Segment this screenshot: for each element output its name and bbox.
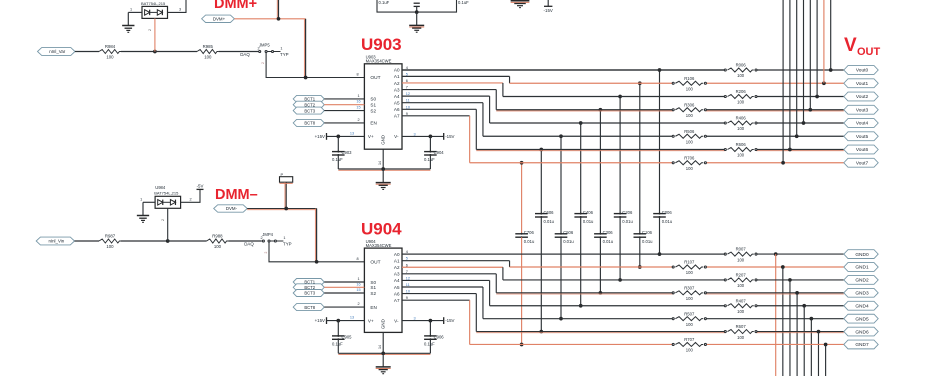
svg-text:100: 100: [737, 73, 745, 78]
wire A7 staircase (U904): [402, 300, 470, 344]
wire channel 7 vertical (GND side): [520, 237, 524, 346]
svg-text:5: 5: [406, 72, 408, 76]
net label DVM+: [202, 15, 235, 22]
wire A6 staircase (U903): [402, 109, 476, 149]
svg-text:OUT: OUT: [370, 259, 380, 265]
svg-text:100: 100: [204, 55, 212, 60]
mux U904: [364, 239, 402, 333]
resistor R607: [724, 324, 757, 340]
wire GND4 row: [490, 304, 844, 308]
svg-text:14: 14: [378, 161, 382, 165]
svg-text:C006: C006: [662, 210, 673, 215]
wire A1 staircase (U904): [402, 261, 510, 267]
svg-text:R107: R107: [684, 260, 695, 265]
svg-text:12: 12: [406, 92, 410, 96]
svg-text:S1: S1: [370, 285, 376, 290]
svg-text:100: 100: [737, 257, 745, 262]
wire: [155, 51, 197, 53]
svg-text:R507: R507: [684, 311, 695, 316]
wire channel 5 vertical (GND side): [559, 237, 563, 320]
resistor R606: [724, 142, 757, 158]
capacitor remnant label right: [458, 0, 469, 5]
svg-text:0.01u: 0.01u: [603, 239, 614, 244]
svg-text:10: 10: [406, 105, 410, 109]
wire V-: [402, 132, 444, 136]
wire GND0 row: [402, 252, 844, 256]
svg-text:2: 2: [357, 302, 359, 306]
svg-text:0.1uF: 0.1uF: [332, 157, 343, 162]
jumper JMP5: [259, 42, 289, 64]
svg-text:U904: U904: [361, 220, 402, 239]
svg-text:100: 100: [106, 55, 114, 60]
capacitor remnant label left: [379, 0, 390, 5]
svg-text:100: 100: [737, 153, 745, 158]
svg-text:Vout7: Vout7: [856, 160, 869, 166]
wire to gnd (U904): [382, 353, 384, 366]
resistor R306: [672, 102, 706, 118]
wire A2 staircase (U903): [402, 83, 503, 97]
svg-text:V-: V-: [394, 318, 399, 323]
junction top rail: [415, 10, 419, 14]
svg-text:A1: A1: [394, 74, 400, 79]
svg-text:BCT3: BCT3: [304, 108, 315, 113]
resistor R406: [724, 116, 757, 132]
net label GND2: [844, 276, 878, 285]
svg-text:R706: R706: [684, 155, 695, 160]
wire BCT3 to pin: [324, 106, 364, 111]
power +15V (U903 V+): [315, 133, 327, 140]
resistor R007: [724, 247, 757, 263]
svg-text:100: 100: [686, 270, 694, 275]
label U904 red: [361, 220, 402, 239]
svg-text:R007: R007: [736, 247, 747, 252]
power +15V (U904 V+): [315, 317, 327, 324]
ground (U904): [376, 367, 391, 374]
wire GND0 dropper: [775, 254, 777, 376]
svg-text:9: 9: [406, 112, 408, 116]
svg-text:C406: C406: [583, 210, 594, 215]
resistor R507: [672, 311, 706, 327]
pin 8 label: [356, 73, 358, 77]
wire DMM+ clamp drop: [148, 18, 155, 51]
wire A3 staircase (U904): [402, 274, 496, 293]
svg-text:0.1uF: 0.1uF: [332, 342, 343, 347]
svg-text:EN: EN: [370, 305, 376, 310]
net label GND6: [844, 327, 878, 336]
svg-text:100: 100: [686, 296, 694, 301]
net label GND4: [844, 301, 878, 310]
svg-text:-15V: -15V: [445, 318, 454, 323]
svg-text:0.01u: 0.01u: [583, 219, 594, 224]
svg-text:A0: A0: [394, 252, 400, 257]
svg-text:TYP: TYP: [280, 52, 289, 57]
svg-text:Vout1: Vout1: [856, 81, 869, 87]
wire A3 staircase (U903): [402, 90, 496, 110]
resistor R006: [724, 63, 757, 79]
svg-text:15: 15: [356, 288, 360, 292]
resistor R707: [672, 337, 706, 353]
wire to gnd: [382, 169, 384, 182]
svg-text:R606: R606: [736, 142, 747, 147]
svg-text:BCT8: BCT8: [304, 305, 315, 310]
svg-text:C903: C903: [342, 150, 353, 155]
mux U903 pin names: [368, 68, 400, 145]
svg-text:100: 100: [737, 126, 745, 131]
svg-text:A5: A5: [394, 101, 400, 106]
svg-text:GND: GND: [381, 135, 386, 145]
wire DVM+ to corner: [234, 18, 305, 20]
resistor R407: [724, 298, 757, 314]
svg-text:A0: A0: [394, 68, 400, 73]
junction OUT: [304, 76, 308, 80]
wire top remnant rail: [377, 0, 457, 12]
wire BCT2 to pin: [324, 100, 364, 105]
svg-text:R506: R506: [684, 129, 695, 134]
svg-text:C506: C506: [563, 230, 574, 235]
wire BCT3 to pin (U904): [324, 288, 364, 293]
svg-text:BAT754L,215: BAT754L,215: [141, 1, 166, 6]
power -5V (U984): [197, 183, 204, 189]
svg-text:A5: A5: [394, 285, 400, 290]
svg-text:7: 7: [406, 270, 408, 274]
wire A4 staircase (U904): [402, 280, 490, 305]
wire pin2 (U984): [181, 189, 200, 202]
svg-text:13: 13: [350, 131, 354, 135]
svg-text:+15V: +15V: [315, 134, 325, 139]
junction C903: [336, 135, 340, 139]
svg-text:1: 1: [283, 236, 285, 240]
svg-text:12: 12: [406, 276, 410, 280]
wire GND5 row: [483, 317, 844, 321]
wire down to OUT (U904): [315, 209, 316, 262]
svg-text:100: 100: [686, 166, 694, 171]
svg-text:0.01u: 0.01u: [563, 239, 574, 244]
svg-text:GND1: GND1: [855, 265, 869, 271]
svg-text:U903: U903: [361, 35, 402, 54]
wire DAQ: [219, 46, 260, 57]
svg-text:C906: C906: [434, 335, 445, 340]
svg-text:nInl_Var: nInl_Var: [49, 49, 66, 54]
svg-text:R707: R707: [684, 337, 695, 342]
wire BCT8 to pin: [324, 118, 364, 123]
wire channel 1 vertical (GND side): [638, 237, 642, 269]
svg-text:R607: R607: [736, 324, 747, 329]
svg-text:GND3: GND3: [855, 291, 869, 297]
svg-text:S2: S2: [370, 291, 376, 296]
svg-text:0.01u: 0.01u: [642, 239, 653, 244]
wire pin1 (U984): [140, 198, 155, 216]
svg-text:R984: R984: [105, 44, 116, 49]
wire V+: [327, 131, 365, 136]
svg-text:Vout4: Vout4: [856, 121, 869, 127]
capacitor C506: [555, 230, 575, 244]
svg-text:13: 13: [350, 316, 354, 320]
svg-text:A7: A7: [394, 298, 400, 303]
svg-text:JMP4: JMP4: [262, 232, 273, 237]
net label nInl_Vin: [36, 237, 74, 245]
svg-text:0.01u: 0.01u: [622, 219, 633, 224]
wire GND2 row: [503, 278, 844, 282]
wire JMP5 to OUT: [266, 53, 364, 78]
junction DVM+: [277, 17, 281, 21]
capacitor remnant C plates: [414, 3, 420, 12]
svg-text:DMM+: DMM+: [214, 0, 257, 12]
label U903 red: [361, 35, 402, 54]
wire to ground: [416, 12, 418, 25]
net label GND1: [844, 263, 878, 272]
resistor R988: [207, 234, 229, 249]
wire BCT8 to pin (U904): [324, 302, 364, 307]
net label Vout6: [844, 145, 878, 154]
resistor R706: [672, 155, 706, 171]
svg-text:C106: C106: [642, 230, 653, 235]
wire channel 4 vertical (GND side): [579, 217, 583, 308]
svg-text:+15V: +15V: [315, 318, 325, 323]
wire Vout7 riser: [782, 0, 784, 163]
svg-text:A3: A3: [394, 272, 400, 277]
svg-text:OUT: OUT: [370, 75, 380, 81]
net label BCT3: [293, 107, 324, 114]
wire channel 6 vertical (GND side): [539, 217, 543, 333]
wire GND7 dropper: [825, 344, 827, 376]
svg-text:OUT: OUT: [857, 46, 881, 58]
svg-text:R988: R988: [212, 234, 223, 239]
svg-text:R207: R207: [736, 273, 747, 278]
wire Vout0 riser: [830, 0, 832, 70]
wire BCT1 to pin: [324, 94, 364, 99]
svg-text:0.1uF: 0.1uF: [379, 0, 390, 5]
junction U904 gnd: [381, 351, 385, 355]
junction: [153, 50, 157, 54]
power -15V (U903 V-): [444, 133, 455, 140]
net label GND5: [844, 314, 878, 323]
svg-text:A2: A2: [394, 265, 400, 270]
svg-text:Vout0: Vout0: [856, 68, 869, 74]
svg-text:DMM–: DMM–: [215, 187, 258, 203]
wire channel 0 vertical (Vout side): [658, 68, 662, 213]
test point P: [280, 172, 293, 182]
svg-text:S1: S1: [370, 103, 376, 108]
wire A4 staircase (U903): [402, 96, 490, 123]
net label BCT2: [293, 101, 324, 108]
wire channel 5 vertical (Vout side): [559, 134, 563, 233]
svg-text:S0: S0: [370, 280, 376, 285]
capacitor C006: [653, 210, 673, 224]
svg-text:2: 2: [161, 219, 165, 221]
diode pair U984 BAT754L: [154, 185, 180, 208]
svg-text:100: 100: [737, 309, 745, 314]
pin 8 label (U904): [356, 257, 358, 261]
wire A5 staircase (U903): [402, 103, 483, 137]
svg-text:6: 6: [406, 263, 408, 267]
svg-text:14: 14: [378, 345, 382, 349]
ground (U903): [376, 183, 391, 190]
wire Vout6 riser: [789, 0, 791, 150]
wire BCT1 to pin (U904): [324, 277, 364, 282]
svg-text:-15V: -15V: [445, 134, 454, 139]
net label BCT8 (U904): [293, 304, 324, 311]
svg-text:1: 1: [280, 47, 282, 51]
svg-text:GND0: GND0: [855, 252, 869, 258]
wire Vout0 row: [402, 68, 844, 72]
junction C906: [429, 319, 433, 323]
svg-text:GND2: GND2: [855, 278, 869, 284]
svg-text:GND6: GND6: [855, 329, 869, 335]
wire Vout4 riser: [803, 0, 805, 123]
svg-text:C706: C706: [524, 230, 535, 235]
net label DVM-: [214, 205, 248, 212]
wire Vout2 riser: [816, 0, 818, 97]
svg-text:C905: C905: [342, 335, 353, 340]
svg-text:DAQ: DAQ: [240, 52, 250, 57]
wire Vout4 row: [490, 121, 844, 125]
wire A6 staircase (U904): [402, 294, 476, 332]
label DMM-: [215, 187, 258, 203]
svg-text:100: 100: [686, 86, 694, 91]
svg-text:A6: A6: [394, 291, 400, 296]
jumper JMP4: [262, 232, 291, 254]
wire Vout3 riser: [809, 0, 811, 110]
capacitor C903: [332, 136, 352, 169]
svg-text:100: 100: [214, 244, 222, 249]
mux U904 right pin numbers: [406, 250, 410, 300]
svg-text:100: 100: [686, 113, 694, 118]
svg-text:R206: R206: [736, 89, 747, 94]
net label BCT2 (U904): [293, 284, 324, 291]
mux U903 right pin numbers: [406, 66, 410, 116]
svg-text:2: 2: [261, 62, 265, 64]
svg-text:P: P: [281, 172, 284, 177]
capacitor C306: [594, 230, 614, 244]
svg-text:10: 10: [406, 290, 410, 294]
svg-text:11: 11: [406, 99, 410, 103]
svg-text:C904: C904: [434, 150, 445, 155]
svg-text:V+: V+: [368, 318, 374, 323]
svg-text:100: 100: [737, 283, 745, 288]
net label GND3: [844, 288, 878, 297]
svg-text:8: 8: [356, 73, 358, 77]
wire GND6 dropper: [817, 332, 819, 376]
svg-text:R306: R306: [684, 102, 695, 107]
net label Vout2: [844, 92, 878, 101]
svg-text:0.01u: 0.01u: [544, 219, 555, 224]
svg-text:1: 1: [357, 94, 359, 98]
svg-text:3: 3: [179, 8, 181, 12]
svg-text:3: 3: [413, 317, 415, 321]
wire channel 2 vertical (Vout side): [618, 95, 622, 214]
svg-text:16: 16: [356, 100, 360, 104]
diode pair U983 BAT754L: [141, 1, 168, 18]
svg-text:0.01u: 0.01u: [524, 239, 535, 244]
svg-text:2: 2: [189, 198, 191, 202]
svg-text:GND5: GND5: [855, 316, 869, 322]
wire GND1 dropper: [782, 267, 784, 376]
wire JMP4 to OUT: [269, 242, 364, 262]
svg-text:U984: U984: [155, 185, 166, 190]
svg-text:R985: R985: [203, 44, 214, 49]
svg-text:MAX354CWE: MAX354CWE: [366, 59, 392, 64]
wire V- (U904): [402, 317, 444, 321]
svg-text:4: 4: [406, 66, 408, 70]
wire down to OUT: [304, 19, 305, 78]
net label Vout0: [844, 66, 878, 75]
svg-text:GND4: GND4: [855, 303, 869, 309]
wire: [75, 240, 100, 242]
svg-text:100: 100: [737, 335, 745, 340]
svg-text:A2: A2: [394, 81, 400, 86]
svg-text:DVM+: DVM+: [213, 17, 226, 22]
net label Vout1: [844, 79, 878, 88]
wire U904 ground rail: [338, 332, 430, 354]
svg-text:R987: R987: [105, 234, 116, 239]
wire channel 3 vertical (GND side): [599, 237, 603, 294]
resistor R106: [672, 76, 706, 92]
mux U903: [364, 55, 402, 150]
junction OUT (U904): [315, 260, 319, 264]
junction U903 gnd: [381, 167, 385, 171]
svg-text:Vout6: Vout6: [856, 147, 869, 153]
junction C905: [336, 319, 340, 323]
wire GND7 row: [470, 343, 844, 347]
svg-text:R307: R307: [684, 285, 695, 290]
svg-text:3: 3: [413, 132, 415, 136]
svg-text:0.1uF: 0.1uF: [458, 0, 469, 5]
wire: [121, 51, 155, 53]
net label nInl_Var: [38, 48, 76, 56]
net label GND0: [844, 250, 878, 259]
svg-text:0.1uF: 0.1uF: [424, 342, 435, 347]
svg-text:C606: C606: [544, 210, 555, 215]
wire A0 (U904): [402, 253, 725, 255]
capacitor C106: [634, 230, 654, 244]
junction: [166, 239, 170, 243]
resistor R987: [99, 234, 121, 249]
ground (U984): [137, 216, 149, 223]
svg-text:TYP: TYP: [283, 241, 292, 246]
svg-text:100: 100: [686, 322, 694, 327]
resistor R984: [99, 44, 121, 59]
net label Vout5: [844, 132, 878, 141]
resistor R985: [197, 44, 219, 59]
wire GND6 row: [476, 330, 844, 334]
svg-text:BCT3: BCT3: [304, 291, 315, 296]
wire channel 4 vertical (Vout side): [579, 121, 583, 213]
svg-text:R006: R006: [736, 63, 747, 68]
power -15V (top edge): [544, 0, 553, 13]
wire pin3: [168, 0, 187, 12]
svg-text:V: V: [844, 35, 857, 56]
net label Vout4: [844, 119, 878, 128]
ground (below top rail): [409, 25, 424, 32]
wire GND1 row: [510, 265, 844, 269]
wire U903 ground rail: [338, 149, 430, 170]
svg-text:C206: C206: [622, 210, 633, 215]
junction DVM-: [284, 207, 288, 211]
svg-text:MAX354CWE: MAX354CWE: [366, 243, 392, 248]
svg-text:100: 100: [686, 348, 694, 353]
svg-text:Vout2: Vout2: [856, 94, 869, 100]
wire P to DVM-: [280, 182, 293, 208]
svg-text:1: 1: [140, 198, 142, 202]
wire Vout6 row: [476, 148, 844, 152]
wire: [75, 51, 99, 53]
wire V+ (U904): [327, 316, 365, 321]
resistor R207: [724, 273, 757, 289]
wire: [121, 240, 168, 242]
resistor R107: [672, 260, 706, 276]
wire A5 staircase (U904): [402, 287, 483, 319]
svg-text:DAQ: DAQ: [244, 242, 254, 247]
